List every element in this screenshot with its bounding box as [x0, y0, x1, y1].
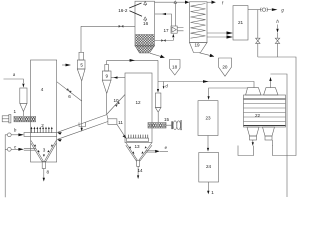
svg-text:24: 24	[206, 164, 212, 169]
svg-text:16: 16	[143, 21, 149, 26]
svg-text:16-2: 16-2	[118, 8, 128, 13]
svg-text:2: 2	[41, 123, 44, 128]
svg-text:3: 3	[43, 147, 46, 152]
svg-text:a: a	[13, 72, 16, 77]
svg-text:12: 12	[135, 100, 141, 105]
svg-text:9: 9	[106, 73, 109, 78]
svg-text:22: 22	[255, 113, 261, 118]
svg-text:c: c	[14, 145, 17, 150]
svg-text:5: 5	[80, 62, 83, 67]
svg-text:23: 23	[205, 115, 211, 120]
svg-text:21: 21	[238, 20, 244, 25]
svg-text:11: 11	[118, 120, 123, 125]
svg-text:10: 10	[113, 98, 119, 103]
svg-text:8: 8	[47, 169, 50, 174]
svg-text:e: e	[165, 145, 168, 150]
svg-text:20: 20	[222, 65, 228, 70]
svg-text:18: 18	[172, 64, 178, 69]
svg-text:14: 14	[137, 168, 143, 173]
svg-text:f: f	[222, 0, 224, 5]
svg-text:1: 1	[14, 109, 17, 114]
svg-text:g: g	[281, 7, 284, 12]
svg-text:15: 15	[164, 117, 170, 122]
svg-text:d: d	[165, 84, 168, 89]
svg-text:19: 19	[194, 42, 200, 47]
svg-text:h: h	[276, 19, 279, 24]
svg-text:17: 17	[163, 28, 169, 33]
svg-text:6: 6	[68, 94, 71, 99]
svg-text:1: 1	[211, 190, 214, 195]
svg-text:13: 13	[134, 144, 140, 149]
svg-text:b: b	[14, 127, 17, 132]
svg-text:4: 4	[41, 87, 44, 92]
